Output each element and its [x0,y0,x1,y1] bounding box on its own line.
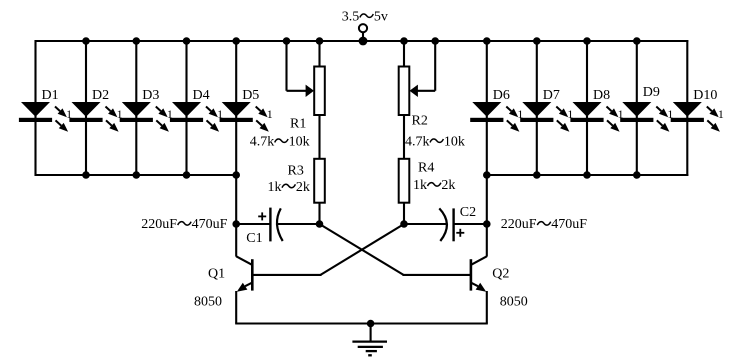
junction on top rail x=636.8 [633,37,641,45]
value R4: 1k~2k [413,178,455,193]
power terminal 3.5~5v circle [359,24,367,32]
potentiometer R2 [399,41,436,115]
svg-text:D6: D6 [493,88,510,103]
LED D9 [620,102,673,132]
node: R4 bottom / C2 left [400,220,408,228]
junction on top rail x=86.0 [82,37,90,45]
svg-text:D1: D1 [42,88,59,103]
svg-text:5v: 5v [374,10,388,25]
junction on right bottom rail x=486.8 [483,171,491,179]
wire: cross coupling node R4 to Q1 base (diagonal) [321,224,405,275]
wire: Q2 base horizontal [403,274,471,276]
wire: D4 branch vertical [185,40,187,176]
svg-text:220uF: 220uF [501,217,537,232]
svg-text:R3: R3 [288,164,304,179]
junction on left bottom rail x=86.0 [82,171,90,179]
wire: R2 top lead [403,41,405,67]
capacitor C1 (electrolytic) [258,208,283,242]
LED D1 [19,102,72,132]
node: C1 left / Q1 collector [232,220,240,228]
wire: C1 right lead [278,223,320,225]
ground symbol [352,324,387,356]
wire: emitter bottom rail [235,322,488,324]
wire: R3 bottom lead to node [318,203,320,224]
svg-text:470uF: 470uF [192,217,228,232]
svg-text:1k: 1k [268,180,282,195]
resistor R3 [314,159,325,203]
wire: C2 right lead [454,223,487,225]
LED D10 [671,102,724,132]
wire: D5 branch vertical [235,40,237,176]
svg-text:470uF: 470uF [551,217,587,232]
svg-text:Q2: Q2 [492,267,509,282]
junction on right bottom rail x=636.8 [633,171,641,179]
wire: C1 left lead [236,223,270,225]
svg-text:D4: D4 [193,88,210,103]
svg-text:1k: 1k [413,178,427,193]
wire: left LED bank bottom rail [35,174,237,176]
wire: left bank to C1/Q1 collector [235,175,237,257]
svg-text:Q1: Q1 [208,267,225,282]
wire: R2 to R4 lead [403,115,405,159]
wire: +V top rail [35,40,689,42]
wire: cross coupling node R3 to Q2 base (diagonal) [320,224,404,275]
svg-text:220uF: 220uF [141,217,177,232]
svg-text:2k: 2k [296,180,310,195]
wire: Q2 emitter to bottom rail [486,291,488,324]
wire: right bank to C2/Q2 collector [486,175,488,257]
value R2: 4.7k~10k [405,135,465,150]
wire: D7 branch vertical [536,40,538,176]
svg-text:C2: C2 [460,205,476,220]
LED D4 [170,102,223,132]
junction on top rail x=587.0 [583,37,591,45]
junction on top rail x=404.0 [400,37,408,45]
svg-text:D7: D7 [543,88,560,103]
LED D7 [520,102,573,132]
transistor Q1 (NPN 8050) [236,256,252,292]
value C2: 220uF~470uF [501,217,587,232]
junction on right bottom rail x=536.8 [533,171,541,179]
svg-text:4.7k: 4.7k [405,135,430,150]
wire: D9 branch vertical [636,40,638,176]
wire: R1 to R3 lead [318,115,320,159]
LED D6 [470,102,523,132]
potentiometer R1 [287,41,325,115]
value R3: 1k~2k [268,180,310,195]
svg-text:8050: 8050 [194,294,222,309]
LED D8 [570,102,623,132]
wire: Q1 base horizontal [252,274,321,276]
junction on top rail x=236.2 [232,37,240,45]
junction on left bottom rail x=136.3 [133,171,141,179]
wire: R4 bottom lead to node [403,203,405,224]
junction on top rail x=286.5 [283,37,291,45]
value C1: 220uF~470uF [141,217,227,232]
svg-text:D8: D8 [593,88,610,103]
LED D2 [69,102,122,132]
resistor R4 [399,159,410,203]
wire: D6 branch vertical [486,40,488,176]
junction on top rail x=319.5 [316,37,324,45]
svg-text:R4: R4 [418,160,434,175]
label: 3.5~5v [342,10,388,25]
capacitor C2 (electrolytic) [439,208,464,241]
junction on top rail x=186.5 [183,37,191,45]
LED D3 [120,102,173,132]
junction: power on rail [359,37,368,46]
wire: R1 top lead [318,41,320,67]
junction on top rail x=435.2 [431,37,439,45]
svg-text:10k: 10k [289,135,310,150]
wire: Q1 emitter to bottom rail [235,291,237,324]
junction on top rail x=536.8 [533,37,541,45]
value R1: 4.7k~10k [250,135,310,150]
wire: D10 branch vertical [686,40,688,176]
transistor Q2 (NPN 8050) [471,256,487,292]
svg-text:D5: D5 [242,88,259,103]
node: C2 right / Q2 collector [483,220,491,228]
svg-text:10k: 10k [444,135,465,150]
svg-text:R2: R2 [412,113,428,128]
junction on top rail x=486.8 [483,37,491,45]
svg-text:2k: 2k [441,178,455,193]
node: R3 bottom / C1 right [316,220,324,228]
wire: power stub [362,32,364,41]
svg-text:3.5: 3.5 [342,10,360,25]
wire: right LED bank bottom rail [487,174,689,176]
svg-text:D9: D9 [643,85,660,100]
wire: C2 left lead [404,223,447,225]
svg-text:D3: D3 [142,88,159,103]
junction on left bottom rail x=186.5 [183,171,191,179]
svg-text:D2: D2 [92,88,109,103]
svg-text:8050: 8050 [500,294,528,309]
svg-text:4.7k: 4.7k [250,135,275,150]
wire: D1 branch vertical [34,40,36,176]
svg-text:C1: C1 [246,231,262,246]
junction on left bottom rail x=236.2 [232,171,240,179]
svg-text:R1: R1 [290,116,306,131]
wire: D2 branch vertical [85,40,87,176]
junction on top rail x=136.3 [133,37,141,45]
LED D5 [220,102,273,132]
junction on right bottom rail x=587.0 [583,171,591,179]
wire: D8 branch vertical [586,40,588,176]
node: ground junction [367,320,375,328]
wire: D3 branch vertical [135,40,137,176]
svg-text:D10: D10 [693,88,717,103]
